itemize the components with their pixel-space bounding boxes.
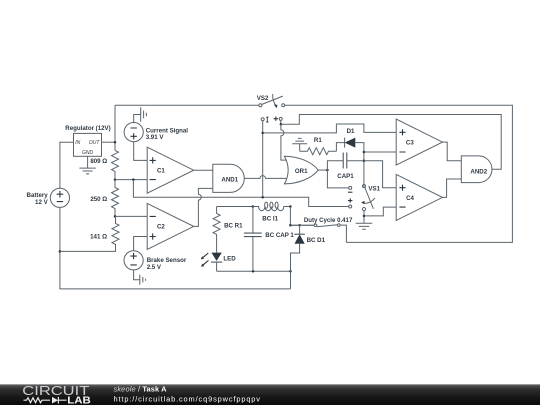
op-amp C1 [147, 147, 194, 193]
svg-text:OUT: OUT [89, 140, 101, 146]
wire C3 out to AND2 [443, 142, 462, 161]
node C1 minus tee [132, 178, 135, 181]
wire left vertical to regulator OUT junction [114, 105, 116, 142]
wire C3 minus input [364, 151, 396, 153]
LED D2 [211, 253, 221, 261]
footer bar [0, 384, 540, 405]
BC section top wire [217, 206, 256, 208]
wire OR1 top input with hop [281, 124, 287, 160]
node VS1 bottom junction [363, 215, 366, 218]
switch duty cycle [290, 224, 314, 226]
svg-text:AND1: AND1 [221, 176, 238, 183]
wire CAP1 left to OR1 out and minus ctrl [327, 161, 348, 188]
ground rotated right (brake) [140, 275, 146, 285]
svg-text:C3: C3 [406, 139, 414, 146]
node D1 CAP1 tee [363, 160, 366, 163]
resistor R1 [300, 148, 337, 155]
svg-text:OR1: OR1 [295, 168, 308, 175]
wire LED bottom rail [217, 270, 291, 272]
svg-text:LAB: LAB [67, 395, 91, 405]
wire CAP1 right to C4 plus [347, 161, 396, 188]
node D1 C3minus tee [363, 151, 366, 154]
terminal VS1 plus ctrl [349, 205, 352, 208]
svg-text:VS2: VS2 [257, 95, 269, 102]
node I wire tee at 132.9 [261, 132, 264, 135]
node OR1 out junction [326, 169, 329, 172]
svg-text:BC R1: BC R1 [224, 223, 243, 230]
op-amp C2 [147, 203, 194, 249]
wire AND1 out to OR1 with hop [244, 176, 286, 179]
switch VS1 [362, 185, 365, 188]
svg-text:Duty Cycle 0.417: Duty Cycle 0.417 [304, 217, 353, 224]
wire current signal bottom to C1 plus [134, 142, 148, 161]
svg-text:141 Ω: 141 Ω [90, 233, 107, 240]
node battery-141 junction [59, 250, 62, 253]
wire regulator OUT [102, 141, 115, 143]
wire VS1 bottom to ground and C4 minus [363, 211, 365, 223]
terminal VS1 minus ctrl [349, 186, 352, 189]
or-gate OR1 [284, 156, 318, 184]
wire VS1 top [363, 185, 365, 188]
current signal source V2 [124, 123, 143, 142]
and-gate AND2 [461, 156, 492, 183]
node inductor right junction [289, 205, 292, 208]
wire inductor right down [290, 207, 314, 226]
svg-text:IN: IN [75, 140, 80, 146]
ground flipped up (R1) [292, 138, 307, 151]
wire regulator IN to battery [60, 142, 74, 188]
node BC cap top junction [252, 205, 255, 208]
wire C1 minus input [115, 179, 147, 181]
node 809 bottom junction [114, 178, 117, 181]
wire feedback from AND2 output [281, 115, 501, 170]
svg-text:809 Ω: 809 Ω [90, 158, 107, 165]
probe label I [266, 117, 268, 122]
svg-text:BC D1: BC D1 [307, 237, 326, 244]
resistor 141ohm [60, 216, 119, 251]
node OUT junction [114, 141, 117, 144]
svg-text:R1: R1 [314, 137, 322, 144]
brake sensor source V3 [124, 251, 143, 270]
wire C3 plus net [263, 124, 397, 133]
wire battery bottom and bottom rail [60, 207, 291, 289]
svg-text:C2: C2 [157, 224, 165, 231]
wire R1 right up to D1 [336, 143, 344, 152]
battery B1 circle [50, 188, 69, 207]
node I-probe bottom junction [261, 196, 264, 199]
svg-text:3.91 V: 3.91 V [146, 134, 165, 141]
node BC D1 bottom junction [289, 270, 292, 273]
wire current signal top to ground [134, 115, 141, 123]
resistor 250ohm [112, 180, 119, 217]
op-amp C4 [396, 174, 442, 220]
wire brake top to C2 plus [134, 237, 148, 251]
wire duty net horizontal [133, 180, 348, 207]
svg-text:LED: LED [223, 255, 236, 262]
svg-text:GND: GND [82, 150, 94, 156]
svg-text:VS1: VS1 [368, 186, 380, 193]
svg-text:BC I1: BC I1 [262, 215, 278, 222]
op-amp C3 [396, 119, 442, 165]
resistor BC R1 [213, 207, 220, 253]
diode BC D1 [299, 225, 301, 234]
terminal plus probe [279, 117, 282, 120]
svg-text:AND2: AND2 [470, 169, 487, 176]
terminal I probe [261, 118, 264, 121]
wire C1 out to AND1 [194, 169, 213, 171]
capacitor BC CAP 1 [252, 207, 254, 272]
node BC D1 top junction [298, 224, 301, 227]
svg-text:Regulator (12V): Regulator (12V) [65, 125, 110, 132]
wire D1 anode to vertical [355, 143, 364, 185]
resistor 809ohm [112, 142, 119, 179]
ground regulator [79, 156, 95, 174]
wire brake bottom to ground [134, 270, 140, 280]
svg-text:D1: D1 [347, 128, 355, 135]
wire C2 minus input [115, 215, 147, 217]
wire top-left rail [115, 104, 259, 106]
ground rotated right (current signal) [141, 107, 147, 121]
regulator U1 box [74, 133, 102, 156]
node plus probe junction [280, 123, 283, 126]
svg-text:http://circuitlab.com/cq9spwcf: http://circuitlab.com/cq9spwcfppqpv [114, 395, 261, 404]
switch VS2 [259, 104, 262, 107]
svg-text:2.5 V: 2.5 V [147, 264, 162, 271]
LED arrows [203, 253, 209, 265]
and-gate AND1 [213, 164, 244, 192]
svg-text:C1: C1 [157, 167, 165, 174]
svg-text:250 Ω: 250 Ω [90, 196, 107, 203]
diode D1 [344, 138, 346, 148]
wire OR1 out [318, 169, 327, 171]
wire C4 out to AND2 [443, 179, 462, 197]
svg-text:12 V: 12 V [35, 199, 49, 206]
svg-text:skeole / Task A: skeole / Task A [114, 385, 168, 394]
wire BC D1 bottom to rail [291, 244, 300, 289]
wire VS1 bottom to C4 minus [364, 207, 396, 216]
ground VS1 [356, 223, 373, 229]
wire C2 out up to AND1 lower with hop [194, 188, 213, 226]
node inductor-switch junction [289, 224, 292, 227]
svg-text:C4: C4 [406, 195, 414, 202]
inductor BC I1 [253, 207, 291, 211]
svg-text:CAP1: CAP1 [337, 173, 354, 180]
node 250 bottom junction [114, 215, 117, 218]
capacitor CAP1 [343, 153, 347, 169]
svg-text:BC CAP 1: BC CAP 1 [265, 232, 294, 239]
wire top-right rail and right feedback loop [285, 105, 513, 242]
node BC cap bottom junction [252, 270, 255, 273]
